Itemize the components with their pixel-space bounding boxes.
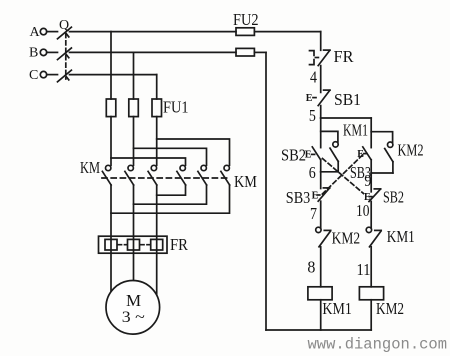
svg-text:3 ~: 3 ~ bbox=[122, 309, 145, 326]
svg-text:www.diangon.com: www.diangon.com bbox=[308, 336, 448, 354]
wire L1 top bbox=[70, 31, 237, 33]
wire motor line W bbox=[156, 185, 158, 300]
wire B stub bbox=[47, 51, 58, 53]
button SB1 (NC stop) bbox=[313, 90, 330, 106]
contactor KM main contact 3 bbox=[148, 165, 157, 185]
motor M circle bbox=[106, 281, 160, 335]
wire phase3 drop bbox=[156, 75, 158, 99]
wire L2 to return bbox=[254, 51, 266, 53]
svg-text:E: E bbox=[357, 149, 364, 160]
node A terminal bbox=[40, 28, 46, 34]
svg-text:KM2: KM2 bbox=[398, 141, 424, 160]
node B terminal bbox=[40, 49, 46, 55]
wire below FU1 pole2 bbox=[133, 117, 135, 166]
wire SB3 lower bbox=[370, 160, 372, 173]
wire node 7 bbox=[320, 201, 322, 228]
wire node 4 bbox=[320, 66, 322, 93]
wire KM2 coil to rail bbox=[370, 300, 372, 330]
svg-text:SB2: SB2 bbox=[383, 187, 404, 206]
switch Q pole C blade bbox=[58, 70, 72, 82]
FR heater element 1 bbox=[105, 239, 117, 250]
svg-text:9: 9 bbox=[364, 171, 371, 190]
contactor KM2 aux contact (NO holding) bbox=[371, 132, 393, 173]
svg-text:11: 11 bbox=[357, 260, 371, 279]
button SB3 (NO start rev) bbox=[363, 147, 371, 160]
wire node 6 bbox=[321, 171, 339, 173]
switch Q pole A blade bbox=[58, 27, 72, 39]
svg-text:SB3: SB3 bbox=[286, 188, 311, 207]
wire node 9 bbox=[371, 172, 393, 174]
FR linkage dashes bbox=[118, 244, 128, 246]
svg-text:FR: FR bbox=[170, 235, 188, 254]
svg-text:KM: KM bbox=[80, 158, 100, 177]
svg-text:C: C bbox=[29, 68, 38, 83]
fuse FU1 pole3 bbox=[152, 99, 162, 117]
svg-text:A: A bbox=[30, 25, 41, 40]
wire phase2 drop bbox=[133, 52, 135, 99]
linkage SB3 dashes bbox=[322, 155, 363, 195]
switch Q pole B blade bbox=[58, 48, 72, 60]
wire A stub bbox=[47, 31, 58, 33]
contactor KM main contact 4 bbox=[177, 165, 186, 185]
wire L1 to control bbox=[254, 31, 320, 33]
svg-text:KM2: KM2 bbox=[332, 229, 361, 248]
wire SB2 upper bbox=[320, 118, 322, 148]
svg-text:SB2: SB2 bbox=[281, 146, 306, 165]
wire KM1 coil to rail bbox=[320, 300, 322, 330]
wire contact4 to W bbox=[157, 185, 186, 195]
svg-text:E: E bbox=[305, 150, 312, 161]
wire SB3NC upper bbox=[320, 172, 322, 189]
contactor KM1 interlock contact (NC) bbox=[366, 227, 381, 247]
wire L2 top bbox=[70, 51, 237, 53]
wire SB2NC upper bbox=[370, 173, 372, 192]
wire contact6 to U bbox=[111, 185, 230, 213]
svg-text:B: B bbox=[29, 46, 38, 61]
control feed corner bbox=[320, 32, 322, 51]
contactor KM main contact 2 bbox=[125, 165, 134, 185]
wire branch C to KM contact 6 bbox=[157, 139, 230, 165]
linkage SB2 dashes bbox=[323, 159, 364, 194]
svg-text:KM1: KM1 bbox=[387, 227, 415, 246]
wire node 11 bbox=[370, 247, 372, 287]
KM linkage dashes bbox=[102, 177, 228, 179]
switch Q linkage bbox=[65, 34, 67, 80]
wire right branch drop bbox=[370, 118, 372, 148]
svg-text:7: 7 bbox=[310, 204, 317, 223]
svg-text:5: 5 bbox=[309, 106, 316, 125]
relay contact FR (NC) bbox=[310, 50, 331, 66]
svg-text:KM1: KM1 bbox=[343, 120, 368, 139]
wire below FU1 pole3 bbox=[156, 117, 158, 166]
svg-text:6: 6 bbox=[309, 163, 316, 182]
wire control return bbox=[265, 52, 267, 330]
button SB3 (NC half) bbox=[318, 188, 330, 201]
svg-text:Q: Q bbox=[59, 18, 69, 33]
svg-text:FR: FR bbox=[334, 47, 354, 66]
coil KM2 bbox=[359, 287, 383, 300]
contactor KM main contact 1 bbox=[102, 165, 111, 185]
coil KM1 bbox=[308, 287, 332, 300]
button SB2 (NC half) bbox=[369, 189, 381, 202]
svg-text:SB1: SB1 bbox=[334, 90, 361, 109]
wire node 10 bbox=[370, 202, 372, 229]
svg-text:8: 8 bbox=[307, 257, 315, 276]
svg-text:KM1: KM1 bbox=[322, 299, 352, 318]
FR heater element 3 bbox=[151, 239, 163, 250]
wire contact5 to V bbox=[134, 185, 207, 204]
wire phase1 drop bbox=[110, 32, 112, 99]
wire below FU1 pole1 bbox=[110, 117, 112, 166]
wire SB2 lower bbox=[320, 160, 322, 172]
svg-text:KM2: KM2 bbox=[376, 299, 404, 318]
wire branch B to KM contact 5 bbox=[134, 148, 207, 165]
node C terminal bbox=[40, 71, 46, 77]
svg-text:4: 4 bbox=[310, 68, 317, 87]
svg-text:M: M bbox=[126, 291, 141, 310]
wire node 5 bbox=[320, 106, 322, 118]
svg-text:FU2: FU2 bbox=[233, 10, 259, 29]
fuse FU2 upper bbox=[236, 28, 254, 36]
svg-text:10: 10 bbox=[356, 201, 370, 220]
fuse FU1 pole1 bbox=[106, 99, 116, 117]
wire C stub bbox=[47, 74, 58, 76]
button SB2 (NO start fwd) bbox=[312, 147, 321, 160]
wire motor line V bbox=[133, 185, 135, 292]
wire bottom rail bbox=[266, 329, 371, 331]
contactor KM main contact 5 bbox=[198, 165, 207, 185]
svg-text:KM: KM bbox=[234, 172, 257, 191]
wire node5 rail bbox=[321, 117, 372, 119]
thermal relay FR box bbox=[99, 236, 168, 253]
wire L3 top bbox=[70, 74, 157, 76]
svg-text:E: E bbox=[312, 190, 319, 201]
contactor KM1 aux contact (NO holding) bbox=[321, 131, 339, 171]
FR heater element 2 bbox=[128, 239, 140, 250]
contactor KM2 interlock contact (NC) bbox=[316, 227, 331, 247]
wire node 8 bbox=[320, 247, 322, 287]
contactor KM main contact 6 bbox=[221, 165, 230, 185]
fuse FU2 lower bbox=[236, 48, 254, 56]
svg-text:E: E bbox=[306, 93, 313, 104]
fuse FU1 pole2 bbox=[129, 99, 139, 117]
wire motor line U bbox=[110, 185, 112, 300]
wire branch A to KM contact 4 bbox=[111, 158, 186, 165]
svg-text:FU1: FU1 bbox=[163, 98, 189, 117]
